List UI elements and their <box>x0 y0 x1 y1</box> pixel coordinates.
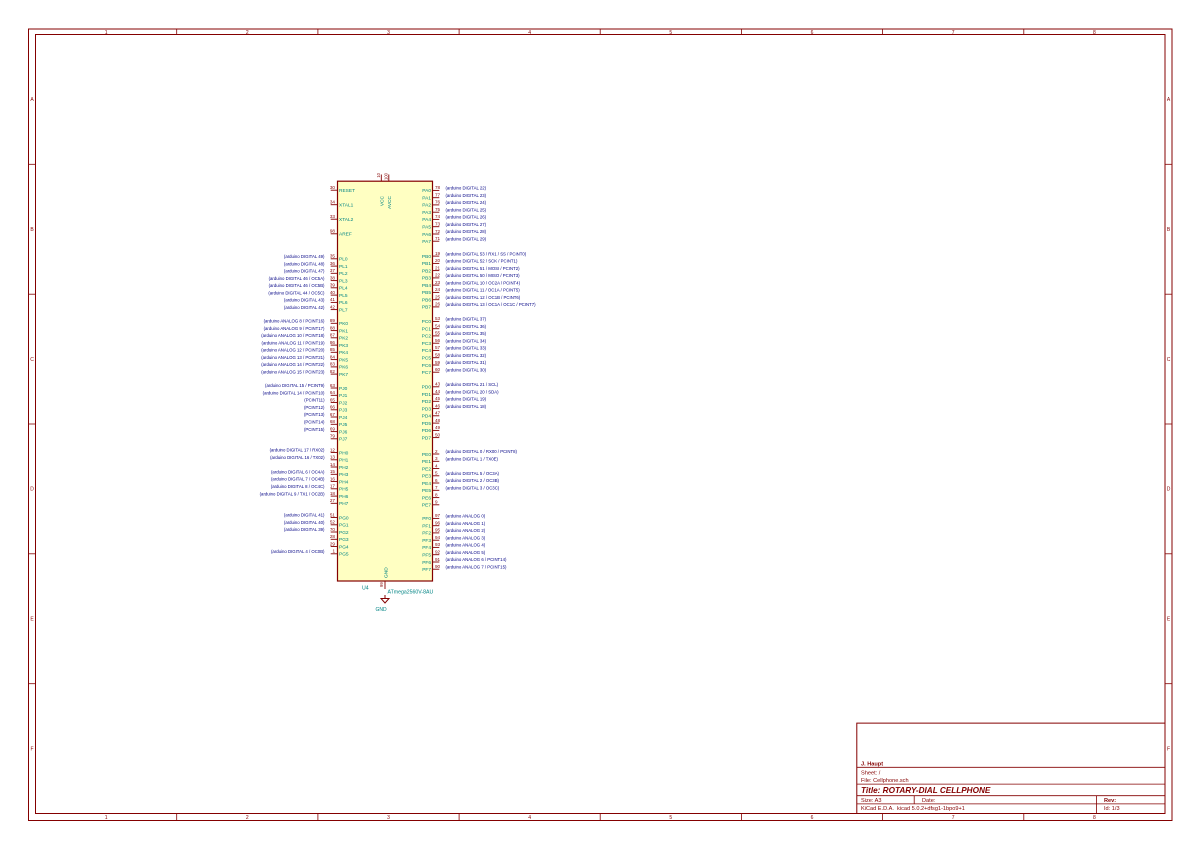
svg-text:(arduino DIGITAL 14 / PCINT10): (arduino DIGITAL 14 / PCINT10) <box>263 391 325 396</box>
svg-text:PA6: PA6 <box>422 232 431 238</box>
svg-text:(arduino DIGITAL 52 / SCK / PC: (arduino DIGITAL 52 / SCK / PCINT1) <box>446 259 518 264</box>
svg-text:(arduino DIGITAL 17 / RX02): (arduino DIGITAL 17 / RX02) <box>270 448 325 453</box>
svg-text:Rev:: Rev: <box>1104 798 1116 804</box>
svg-text:PH5: PH5 <box>339 487 349 493</box>
svg-text:(arduino DIGITAL 39): (arduino DIGITAL 39) <box>284 527 325 532</box>
svg-text:PK6: PK6 <box>339 365 348 371</box>
svg-text:PJ0: PJ0 <box>339 386 348 392</box>
svg-text:47: 47 <box>435 411 441 416</box>
svg-text:(arduino ANALOG 10 / PCINT18): (arduino ANALOG 10 / PCINT18) <box>261 333 325 338</box>
svg-text:93: 93 <box>435 542 441 547</box>
svg-text:PB0: PB0 <box>422 254 431 260</box>
svg-text:PF7: PF7 <box>422 567 431 573</box>
svg-text:85: 85 <box>330 347 336 352</box>
svg-text:Title: ROTARY-DIAL CELLPHONE: Title: ROTARY-DIAL CELLPHONE <box>861 786 991 795</box>
svg-text:PK0: PK0 <box>339 321 348 327</box>
svg-text:File: Cellphone.sch: File: Cellphone.sch <box>861 778 909 784</box>
svg-text:48: 48 <box>435 418 441 423</box>
svg-text:(arduino DIGITAL 46 / OC5B): (arduino DIGITAL 46 / OC5B) <box>269 283 325 288</box>
svg-text:(arduino ANALOG 7 / PCINT15): (arduino ANALOG 7 / PCINT15) <box>446 564 507 569</box>
svg-text:(arduino ANALOG 0): (arduino ANALOG 0) <box>446 514 486 519</box>
svg-text:6: 6 <box>435 478 438 483</box>
svg-text:(arduino ANALOG 6 / PCINT14): (arduino ANALOG 6 / PCINT14) <box>446 557 507 562</box>
svg-text:(arduino DIGITAL 7 / OC4B): (arduino DIGITAL 7 / OC4B) <box>271 477 325 482</box>
svg-text:PA0: PA0 <box>422 188 431 194</box>
svg-text:(arduino DIGITAL 12 / OC1B / P: (arduino DIGITAL 12 / OC1B / PCINT6) <box>446 295 521 300</box>
svg-text:PJ4: PJ4 <box>339 415 348 421</box>
svg-text:PH1: PH1 <box>339 458 349 464</box>
svg-text:F: F <box>1167 746 1170 752</box>
title block <box>857 723 1165 813</box>
svg-text:49: 49 <box>435 425 441 430</box>
svg-text:2: 2 <box>435 449 438 454</box>
svg-text:C: C <box>30 357 34 363</box>
svg-text:98: 98 <box>330 229 336 234</box>
svg-text:B: B <box>1167 227 1171 233</box>
svg-text:PL4: PL4 <box>339 286 348 292</box>
svg-text:PF5: PF5 <box>422 553 431 559</box>
svg-text:PA4: PA4 <box>422 217 431 223</box>
svg-text:PE0: PE0 <box>422 452 431 458</box>
svg-text:Size: A3: Size: A3 <box>861 798 882 804</box>
svg-text:36: 36 <box>330 261 336 266</box>
svg-text:PB5: PB5 <box>422 290 431 296</box>
svg-text:99: 99 <box>379 582 384 587</box>
svg-text:(PCINT13): (PCINT13) <box>304 412 325 417</box>
svg-text:PG3: PG3 <box>339 537 349 543</box>
svg-text:8: 8 <box>1093 30 1096 36</box>
IC U4 ATmega2560 body <box>338 181 433 581</box>
svg-text:3: 3 <box>387 30 390 36</box>
svg-text:41: 41 <box>330 297 336 302</box>
svg-text:PE4: PE4 <box>422 481 431 487</box>
svg-text:53: 53 <box>435 316 441 321</box>
svg-text:25: 25 <box>435 295 441 300</box>
svg-text:PH3: PH3 <box>339 472 349 478</box>
svg-text:GND: GND <box>384 567 390 578</box>
svg-text:(arduino DIGITAL 50 / MISO / P: (arduino DIGITAL 50 / MISO / PCINT3) <box>446 273 521 278</box>
svg-text:A: A <box>1167 97 1171 103</box>
svg-text:(arduino DIGITAL 37): (arduino DIGITAL 37) <box>446 317 487 322</box>
svg-text:37: 37 <box>330 268 336 273</box>
svg-text:PK3: PK3 <box>339 343 348 349</box>
svg-text:PA7: PA7 <box>422 239 431 245</box>
svg-text:PE1: PE1 <box>422 459 431 465</box>
svg-text:7: 7 <box>435 485 438 490</box>
svg-text:PG1: PG1 <box>339 523 349 529</box>
svg-text:B: B <box>30 227 34 233</box>
svg-text:PD7: PD7 <box>422 435 432 441</box>
svg-text:84: 84 <box>330 354 336 359</box>
svg-text:(arduino DIGITAL 32): (arduino DIGITAL 32) <box>446 353 487 358</box>
svg-text:J. Haupt: J. Haupt <box>861 762 883 768</box>
svg-text:(arduino ANALOG 9 / PCINT17): (arduino ANALOG 9 / PCINT17) <box>264 326 325 331</box>
svg-text:KiCad E.D.A. kicad 5.0.2+dfsg: KiCad E.D.A. kicad 5.0.2+dfsg1-1bpo9+1 <box>861 806 965 812</box>
svg-text:3: 3 <box>435 456 438 461</box>
svg-text:AVCC: AVCC <box>387 195 393 209</box>
svg-text:69: 69 <box>330 426 336 431</box>
svg-text:51: 51 <box>330 512 336 517</box>
svg-text:(arduino ANALOG 5): (arduino ANALOG 5) <box>446 550 486 555</box>
svg-text:(arduino DIGITAL 24): (arduino DIGITAL 24) <box>446 200 487 205</box>
svg-text:(arduino DIGITAL 13 / OC1A / O: (arduino DIGITAL 13 / OC1A / OC1C / PCIN… <box>446 302 537 307</box>
svg-text:PF6: PF6 <box>422 560 431 566</box>
svg-text:(PCINT11): (PCINT11) <box>304 398 325 403</box>
svg-text:PH0: PH0 <box>339 450 349 456</box>
svg-text:(arduino DIGITAL 18): (arduino DIGITAL 18) <box>446 404 487 409</box>
svg-text:26: 26 <box>435 302 441 307</box>
svg-text:(arduino DIGITAL 33): (arduino DIGITAL 33) <box>446 346 487 351</box>
svg-text:(arduino DIGITAL 40): (arduino DIGITAL 40) <box>284 520 325 525</box>
svg-text:PA2: PA2 <box>422 203 431 209</box>
svg-text:PE5: PE5 <box>422 488 431 494</box>
svg-text:PD1: PD1 <box>422 392 432 398</box>
svg-text:(arduino DIGITAL 31): (arduino DIGITAL 31) <box>446 360 487 365</box>
svg-text:PL1: PL1 <box>339 264 348 270</box>
svg-text:(arduino DIGITAL 20 / SDA): (arduino DIGITAL 20 / SDA) <box>446 389 500 394</box>
svg-text:Date:: Date: <box>922 798 936 804</box>
svg-text:(arduino DIGITAL 42): (arduino DIGITAL 42) <box>284 305 325 310</box>
svg-text:PH4: PH4 <box>339 479 349 485</box>
svg-text:86: 86 <box>330 340 336 345</box>
svg-text:PJ2: PJ2 <box>339 400 348 406</box>
svg-text:35: 35 <box>330 254 336 259</box>
svg-text:PE6: PE6 <box>422 495 431 501</box>
svg-text:D: D <box>30 487 34 493</box>
svg-text:A: A <box>30 97 34 103</box>
svg-text:PD3: PD3 <box>422 406 432 412</box>
svg-text:65: 65 <box>330 397 336 402</box>
svg-text:67: 67 <box>330 412 336 417</box>
svg-text:56: 56 <box>435 338 441 343</box>
svg-text:PF3: PF3 <box>422 538 431 544</box>
svg-text:PL6: PL6 <box>339 300 348 306</box>
svg-text:PL0: PL0 <box>339 257 348 263</box>
svg-text:(arduino DIGITAL 0 / RX00 / PC: (arduino DIGITAL 0 / RX00 / PCINT8) <box>446 449 518 454</box>
svg-text:PF4: PF4 <box>422 545 431 551</box>
svg-text:RESET: RESET <box>339 188 355 194</box>
svg-text:PF2: PF2 <box>422 531 431 537</box>
svg-text:(arduino ANALOG 14 / PCINT22): (arduino ANALOG 14 / PCINT22) <box>261 362 325 367</box>
U4 bottom GND pin <box>379 567 389 589</box>
svg-text:5: 5 <box>669 30 672 36</box>
svg-text:(arduino DIGITAL 8 / OC4C): (arduino DIGITAL 8 / OC4C) <box>271 484 325 489</box>
svg-text:PL7: PL7 <box>339 307 348 313</box>
svg-text:83: 83 <box>330 362 336 367</box>
svg-text:1: 1 <box>332 549 335 554</box>
svg-text:(arduino ANALOG 13 / PCINT21): (arduino ANALOG 13 / PCINT21) <box>261 355 325 360</box>
svg-text:29: 29 <box>330 541 336 546</box>
svg-text:45: 45 <box>435 396 441 401</box>
svg-text:12: 12 <box>330 447 336 452</box>
svg-text:PK2: PK2 <box>339 336 348 342</box>
svg-text:15: 15 <box>330 469 336 474</box>
svg-text:30: 30 <box>330 185 336 190</box>
svg-text:(arduino DIGITAL 2 / OC3B): (arduino DIGITAL 2 / OC3B) <box>446 478 500 483</box>
svg-text:97: 97 <box>435 513 441 518</box>
U4 reference and value <box>362 586 434 596</box>
svg-text:F: F <box>30 746 33 752</box>
svg-text:43: 43 <box>435 382 441 387</box>
svg-text:(arduino DIGITAL 41): (arduino DIGITAL 41) <box>284 513 325 518</box>
svg-text:2: 2 <box>246 815 249 821</box>
svg-text:PD4: PD4 <box>422 414 432 420</box>
svg-text:3: 3 <box>387 815 390 821</box>
svg-text:GND: GND <box>375 607 387 613</box>
svg-text:71: 71 <box>435 236 441 241</box>
svg-text:7: 7 <box>952 30 955 36</box>
svg-text:(arduino ANALOG 15 / PCINT23): (arduino ANALOG 15 / PCINT23) <box>261 369 325 374</box>
svg-text:Id: 1/3: Id: 1/3 <box>1104 806 1120 812</box>
svg-text:66: 66 <box>330 405 336 410</box>
svg-text:(arduino DIGITAL 34): (arduino DIGITAL 34) <box>446 338 487 343</box>
svg-text:87: 87 <box>330 333 336 338</box>
svg-text:4: 4 <box>435 463 438 468</box>
svg-text:8: 8 <box>1093 815 1096 821</box>
svg-text:58: 58 <box>435 353 441 358</box>
svg-text:PG4: PG4 <box>339 544 349 550</box>
svg-text:94: 94 <box>435 535 441 540</box>
svg-text:PK5: PK5 <box>339 357 348 363</box>
svg-text:42: 42 <box>330 304 336 309</box>
svg-text:(arduino DIGITAL 43): (arduino DIGITAL 43) <box>284 298 325 303</box>
svg-text:(arduino DIGITAL 47): (arduino DIGITAL 47) <box>284 269 325 274</box>
svg-text:70: 70 <box>330 527 336 532</box>
svg-text:(arduino DIGITAL 25): (arduino DIGITAL 25) <box>446 207 487 212</box>
svg-text:PL2: PL2 <box>339 271 348 277</box>
svg-text:27: 27 <box>330 498 336 503</box>
svg-text:PB1: PB1 <box>422 261 431 267</box>
svg-text:73: 73 <box>435 222 441 227</box>
svg-text:PA5: PA5 <box>422 225 431 231</box>
svg-text:(arduino DIGITAL 21 / SCL): (arduino DIGITAL 21 / SCL) <box>446 382 499 387</box>
svg-text:44: 44 <box>435 389 441 394</box>
svg-text:77: 77 <box>435 193 441 198</box>
svg-text:XTAL1: XTAL1 <box>339 203 354 209</box>
svg-text:ATmega2560V-8AU: ATmega2560V-8AU <box>388 590 434 596</box>
svg-text:PB3: PB3 <box>422 276 431 282</box>
svg-text:100: 100 <box>383 172 388 180</box>
svg-text:14: 14 <box>330 462 336 467</box>
svg-text:D: D <box>1167 487 1171 493</box>
svg-text:PC3: PC3 <box>422 341 432 347</box>
svg-text:C: C <box>1167 357 1171 363</box>
svg-text:PB6: PB6 <box>422 298 431 304</box>
svg-text:PK7: PK7 <box>339 372 348 378</box>
svg-text:64: 64 <box>330 390 336 395</box>
svg-text:PG0: PG0 <box>339 515 349 521</box>
svg-text:33: 33 <box>330 214 336 219</box>
svg-text:54: 54 <box>435 324 441 329</box>
svg-text:4: 4 <box>528 815 531 821</box>
svg-text:PA3: PA3 <box>422 210 431 216</box>
svg-text:9: 9 <box>435 500 438 505</box>
svg-text:(arduino DIGITAL 48): (arduino DIGITAL 48) <box>284 261 325 266</box>
svg-text:(arduino DIGITAL 44 / OC5C): (arduino DIGITAL 44 / OC5C) <box>268 290 325 295</box>
svg-text:17: 17 <box>330 484 336 489</box>
svg-text:PE2: PE2 <box>422 466 431 472</box>
svg-text:24: 24 <box>435 287 441 292</box>
svg-text:PH2: PH2 <box>339 465 349 471</box>
svg-text:60: 60 <box>435 367 441 372</box>
svg-text:8: 8 <box>435 492 438 497</box>
svg-text:96: 96 <box>435 521 441 526</box>
svg-text:PA1: PA1 <box>422 196 431 202</box>
svg-text:92: 92 <box>435 550 441 555</box>
svg-text:AREF: AREF <box>339 232 352 238</box>
svg-text:PE7: PE7 <box>422 503 431 509</box>
svg-text:5: 5 <box>435 471 438 476</box>
svg-text:PH6: PH6 <box>339 494 349 500</box>
svg-text:(arduino DIGITAL 19): (arduino DIGITAL 19) <box>446 397 487 402</box>
svg-text:4: 4 <box>528 30 531 36</box>
svg-text:PG5: PG5 <box>339 552 349 558</box>
svg-text:75: 75 <box>435 207 441 212</box>
svg-text:PC6: PC6 <box>422 363 432 369</box>
svg-text:6: 6 <box>811 30 814 36</box>
svg-text:PD2: PD2 <box>422 399 432 405</box>
svg-text:PD0: PD0 <box>422 385 432 391</box>
svg-text:(arduino ANALOG 12 / PCINT20): (arduino ANALOG 12 / PCINT20) <box>261 348 325 353</box>
svg-text:PJ7: PJ7 <box>339 437 348 443</box>
svg-text:(arduino DIGITAL 3 / OC3C): (arduino DIGITAL 3 / OC3C) <box>446 486 500 491</box>
svg-text:PE3: PE3 <box>422 474 431 480</box>
svg-text:(arduino DIGITAL 11 / OC1A / P: (arduino DIGITAL 11 / OC1A / PCINT5) <box>446 288 521 293</box>
svg-text:13: 13 <box>330 455 336 460</box>
svg-text:28: 28 <box>330 534 336 539</box>
svg-text:(arduino DIGITAL 35): (arduino DIGITAL 35) <box>446 331 487 336</box>
svg-text:72: 72 <box>435 229 441 234</box>
svg-text:PD6: PD6 <box>422 428 432 434</box>
svg-text:PF1: PF1 <box>422 524 431 530</box>
svg-text:57: 57 <box>435 345 441 350</box>
svg-text:(PCINT14): (PCINT14) <box>304 420 325 425</box>
svg-text:PF0: PF0 <box>422 516 431 522</box>
svg-text:PC0: PC0 <box>422 319 432 325</box>
svg-text:PD5: PD5 <box>422 421 432 427</box>
svg-text:PB2: PB2 <box>422 268 431 274</box>
svg-text:(arduino DIGITAL 28): (arduino DIGITAL 28) <box>446 229 487 234</box>
svg-text:(arduino ANALOG 2): (arduino ANALOG 2) <box>446 528 486 533</box>
svg-text:(arduino ANALOG 1): (arduino ANALOG 1) <box>446 521 486 526</box>
svg-text:40: 40 <box>330 290 336 295</box>
svg-text:74: 74 <box>435 214 441 219</box>
svg-text:(PCINT15): (PCINT15) <box>304 427 325 432</box>
svg-text:(arduino ANALOG 3): (arduino ANALOG 3) <box>446 535 486 540</box>
svg-text:(arduino DIGITAL 49): (arduino DIGITAL 49) <box>284 254 325 259</box>
svg-text:20: 20 <box>435 258 441 263</box>
svg-text:PB4: PB4 <box>422 283 431 289</box>
svg-text:46: 46 <box>435 403 441 408</box>
svg-text:(arduino DIGITAL 23): (arduino DIGITAL 23) <box>446 193 487 198</box>
svg-text:PJ1: PJ1 <box>339 393 348 399</box>
U4 right pins <box>422 185 441 573</box>
svg-text:PJ6: PJ6 <box>339 429 348 435</box>
svg-text:PB7: PB7 <box>422 305 431 311</box>
svg-text:VCC: VCC <box>380 195 386 206</box>
svg-text:1: 1 <box>105 30 108 36</box>
svg-text:(arduino DIGITAL 29): (arduino DIGITAL 29) <box>446 236 487 241</box>
svg-text:PC7: PC7 <box>422 370 432 376</box>
svg-text:PC5: PC5 <box>422 356 432 362</box>
svg-text:(arduino DIGITAL 30): (arduino DIGITAL 30) <box>446 367 487 372</box>
arduino pin function labels right of U4 <box>446 186 537 570</box>
svg-text:PJ3: PJ3 <box>339 408 348 414</box>
svg-text:7: 7 <box>952 815 955 821</box>
svg-text:E: E <box>1167 617 1171 623</box>
svg-text:(arduino DIGITAL 53 / RX1 / SS: (arduino DIGITAL 53 / RX1 / SS / PCINT0) <box>446 251 527 256</box>
svg-text:(arduino DIGITAL 16 / TX02): (arduino DIGITAL 16 / TX02) <box>270 455 325 460</box>
svg-text:63: 63 <box>330 383 336 388</box>
svg-text:55: 55 <box>435 331 441 336</box>
svg-text:PC2: PC2 <box>422 334 432 340</box>
svg-text:38: 38 <box>330 275 336 280</box>
svg-text:Sheet: /: Sheet: / <box>861 771 881 777</box>
svg-text:18: 18 <box>330 491 336 496</box>
svg-text:PG2: PG2 <box>339 530 349 536</box>
svg-text:(arduino DIGITAL 27): (arduino DIGITAL 27) <box>446 222 487 227</box>
svg-text:(arduino ANALOG 11 / PCINT19): (arduino ANALOG 11 / PCINT19) <box>262 340 326 345</box>
svg-text:2: 2 <box>246 30 249 36</box>
svg-text:82: 82 <box>330 369 336 374</box>
svg-text:21: 21 <box>435 265 441 270</box>
arduino pin function labels left of U4 <box>260 254 325 554</box>
svg-text:(arduino DIGITAL 15 / PCINT9): (arduino DIGITAL 15 / PCINT9) <box>265 383 325 388</box>
svg-text:50: 50 <box>435 432 441 437</box>
svg-text:PJ5: PJ5 <box>339 422 348 428</box>
svg-text:(arduino DIGITAL 36): (arduino DIGITAL 36) <box>446 324 487 329</box>
svg-text:76: 76 <box>435 200 441 205</box>
svg-text:(arduino ANALOG 8 / PCINT16): (arduino ANALOG 8 / PCINT16) <box>264 319 325 324</box>
svg-text:(arduino DIGITAL 4 / OC0B): (arduino DIGITAL 4 / OC0B) <box>271 549 325 554</box>
svg-text:68: 68 <box>330 419 336 424</box>
U4 top pins VCC AVCC <box>376 172 393 209</box>
svg-text:E: E <box>30 617 34 623</box>
svg-text:5: 5 <box>669 815 672 821</box>
svg-text:(arduino DIGITAL 6 / OC4A): (arduino DIGITAL 6 / OC4A) <box>271 470 325 475</box>
svg-text:PC4: PC4 <box>422 348 432 354</box>
svg-text:PC1: PC1 <box>422 327 432 333</box>
svg-text:39: 39 <box>330 283 336 288</box>
ground below U4 <box>375 595 389 613</box>
svg-text:16: 16 <box>330 476 336 481</box>
svg-text:U4: U4 <box>362 586 369 592</box>
svg-text:88: 88 <box>330 325 336 330</box>
U4 left pins <box>330 185 355 558</box>
svg-text:PH7: PH7 <box>339 501 349 507</box>
svg-text:(arduino DIGITAL 1 / TX0E): (arduino DIGITAL 1 / TX0E) <box>446 457 499 462</box>
svg-text:(arduino DIGITAL 10 / OC2A / P: (arduino DIGITAL 10 / OC2A / PCINT4) <box>446 280 521 285</box>
svg-text:22: 22 <box>435 273 441 278</box>
svg-text:(arduino DIGITAL 5 / OC3A): (arduino DIGITAL 5 / OC3A) <box>446 471 500 476</box>
svg-text:PK1: PK1 <box>339 328 348 334</box>
svg-text:91: 91 <box>435 557 441 562</box>
svg-text:(PCINT12): (PCINT12) <box>304 405 325 410</box>
svg-text:34: 34 <box>330 200 336 205</box>
svg-text:10: 10 <box>376 172 381 177</box>
svg-text:59: 59 <box>435 360 441 365</box>
svg-text:89: 89 <box>330 318 336 323</box>
svg-text:PL5: PL5 <box>339 293 348 299</box>
svg-text:6: 6 <box>811 815 814 821</box>
svg-text:(arduino DIGITAL 51 / MOSI / P: (arduino DIGITAL 51 / MOSI / PCINT2) <box>446 266 521 271</box>
svg-text:19: 19 <box>435 251 441 256</box>
svg-text:(arduino DIGITAL 46 / OC5A): (arduino DIGITAL 46 / OC5A) <box>269 276 325 281</box>
svg-text:PK4: PK4 <box>339 350 348 356</box>
svg-text:XTAL2: XTAL2 <box>339 217 354 223</box>
svg-text:1: 1 <box>105 815 108 821</box>
svg-text:(arduino DIGITAL 22): (arduino DIGITAL 22) <box>446 186 487 191</box>
